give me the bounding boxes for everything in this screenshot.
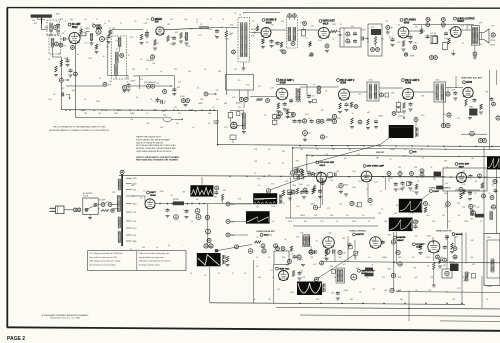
row2 circle pair	[313, 85, 321, 94]
cap 174	[172, 87, 180, 96]
border frame top	[7, 7, 500, 10]
V11 circles	[441, 113, 500, 128]
svg-text:.01: .01	[108, 35, 110, 37]
sound trimmer circle	[120, 54, 124, 58]
svg-text:68: 68	[458, 215, 460, 217]
svg-text:.01: .01	[313, 185, 315, 187]
svg-text:SND DET: SND DET	[376, 152, 385, 154]
svg-text:.01: .01	[126, 82, 129, 84]
svg-text:270: 270	[327, 208, 330, 210]
svg-text:LOCK: LOCK	[83, 196, 89, 198]
waveform scope W8	[389, 218, 413, 232]
svg-text:FILTER: FILTER	[173, 199, 179, 201]
svg-text:VALUE OF THE APPLICATION: VALUE OF THE APPLICATION	[136, 141, 164, 144]
svg-text:330: 330	[471, 158, 474, 160]
svg-text:HV RECT: HV RECT	[416, 244, 425, 246]
T-P taps	[126, 178, 137, 243]
svg-text:TP: TP	[313, 85, 315, 87]
svg-text:470: 470	[312, 96, 315, 98]
notes table col2	[139, 252, 171, 267]
svg-text:.05: .05	[204, 275, 206, 277]
svg-text:PART NAME AND SCHEMATIC REF. N: PART NAME AND SCHEMATIC REF. NUMBER	[136, 159, 178, 162]
svg-text:56: 56	[136, 97, 138, 99]
video amp tube V13	[361, 171, 372, 182]
trap tube	[231, 122, 237, 128]
svg-text:FOCUS: FOCUS	[431, 33, 437, 35]
V8 right comps	[307, 94, 316, 104]
tuner circle 2	[71, 46, 75, 50]
notes table box	[88, 251, 187, 271]
notes table col1	[89, 252, 123, 267]
right box comps	[463, 174, 484, 195]
svg-text:ON-OFF: ON-OFF	[99, 200, 105, 202]
svg-text:MODELS. SOME ARE THE ALTERNATE: MODELS. SOME ARE THE ALTERNATE AND	[136, 147, 176, 150]
label horiz osc control	[429, 187, 451, 193]
border frame left	[6, 8, 8, 328]
waveform scope W3 sawtooth	[197, 253, 221, 266]
svg-text:.02: .02	[366, 277, 368, 279]
svg-text:5U4G: 5U4G	[150, 194, 156, 197]
svg-text:1MEG: 1MEG	[390, 149, 395, 151]
svg-text:RECEIVER MAKES IT POSSIBLE TO: RECEIVER MAKES IT POSSIBLE TO BRING YOU …	[49, 129, 110, 132]
sync tube V12	[317, 173, 327, 183]
waveform scope W1 sync pulses	[389, 125, 414, 138]
filter choke	[173, 198, 255, 206]
svg-text:330: 330	[328, 232, 331, 234]
svg-text:.01: .01	[268, 257, 270, 259]
svg-text:120: 120	[238, 80, 241, 82]
svg-text:470: 470	[178, 113, 181, 115]
horiz disc tube V17	[370, 237, 382, 249]
svg-text:.005: .005	[77, 23, 80, 25]
svg-text:56: 56	[221, 27, 223, 29]
svg-text:270: 270	[140, 79, 143, 81]
svg-text:.01: .01	[104, 23, 106, 25]
yoke box inner	[487, 240, 500, 278]
bus 147 corner down	[292, 148, 294, 171]
comps under tuner	[54, 66, 73, 77]
V7 comps	[433, 32, 456, 56]
W3 top wire	[218, 244, 252, 250]
svg-text:47: 47	[232, 273, 234, 275]
svg-text:270: 270	[359, 291, 362, 293]
V4V5 bottom comps	[276, 41, 330, 54]
svg-text:SOUND IF: SOUND IF	[266, 20, 278, 22]
svg-text:68: 68	[334, 277, 336, 279]
bplus col	[205, 204, 211, 247]
svg-text:220: 220	[144, 35, 147, 37]
AC interlock box	[83, 198, 98, 215]
W9 pointer	[314, 252, 360, 282]
label sound IF	[262, 19, 277, 25]
svg-text:.05: .05	[268, 163, 270, 165]
label 6T8 mid	[410, 151, 417, 154]
svg-text:470: 470	[332, 149, 335, 151]
vert line 348	[347, 236, 349, 262]
svg-text:56: 56	[422, 157, 424, 159]
cap C6	[215, 29, 219, 39]
order parts text	[136, 156, 180, 162]
label pix IF 1	[276, 79, 294, 85]
onoff switch	[98, 200, 112, 207]
svg-text:56: 56	[368, 221, 370, 223]
svg-text:47: 47	[128, 55, 130, 57]
svg-text:.05: .05	[472, 111, 474, 113]
cap C2	[107, 35, 111, 44]
svg-text:.05: .05	[417, 181, 419, 183]
svg-text:.005: .005	[367, 112, 370, 114]
trans bottom	[473, 45, 477, 59]
video det circles b	[350, 198, 372, 207]
under comps D	[309, 114, 337, 139]
svg-text:470: 470	[296, 257, 299, 259]
wires to transformer	[98, 205, 118, 209]
svg-text:470: 470	[346, 215, 349, 217]
svg-text:.05: .05	[325, 91, 327, 93]
svg-text:56: 56	[285, 239, 287, 241]
more texture labels	[34, 21, 493, 279]
waveform scope W6	[487, 156, 500, 169]
hout lower rects	[442, 236, 452, 278]
svg-text:1MEG: 1MEG	[343, 290, 348, 292]
width coil dark	[449, 261, 459, 271]
svg-text:330: 330	[170, 44, 173, 46]
resistor R2a	[95, 44, 99, 54]
vert circles	[309, 249, 334, 265]
vert line 433	[432, 237, 434, 243]
under comps B	[288, 113, 302, 124]
osc trans circle	[309, 250, 316, 254]
terminal 206-94	[204, 92, 217, 96]
svg-text:adjusted before each gain coun: adjusted before each gain count.	[139, 256, 166, 259]
svg-text:USED WHEN NEEDED A USE MODELS.: USED WHEN NEEDED A USE MODELS.	[136, 150, 172, 153]
label video det	[461, 77, 483, 84]
cooperation text	[49, 125, 110, 132]
svg-text:470: 470	[402, 186, 405, 188]
svg-text:4.7MEG: 4.7MEG	[297, 260, 304, 262]
svg-text:.001: .001	[470, 257, 473, 259]
svg-text:T3: T3	[239, 15, 241, 17]
svg-text:.01: .01	[318, 277, 320, 279]
svg-text:330: 330	[304, 221, 307, 223]
svg-text:.01: .01	[222, 19, 224, 21]
peaking coil L5	[200, 24, 209, 29]
circle 105-84	[103, 82, 112, 86]
bottom labels row1	[308, 53, 313, 58]
svg-text:+: +	[182, 245, 183, 247]
svg-text:TRAP: TRAP	[214, 122, 220, 125]
wire antenna-tuner	[42, 25, 48, 30]
svg-text:.02: .02	[252, 20, 254, 22]
phase det vertical	[290, 178, 292, 219]
svg-text:330: 330	[174, 69, 177, 71]
V6 comps	[389, 35, 413, 51]
bus y218	[285, 217, 375, 219]
svg-text:1MEG: 1MEG	[85, 28, 90, 30]
svg-text:270: 270	[170, 19, 173, 21]
svg-text:PIC IF AMP 1: PIC IF AMP 1	[280, 79, 295, 82]
svg-text:4BQ7: 4BQ7	[72, 26, 79, 29]
svg-text:6T8: 6T8	[413, 152, 416, 154]
svg-text:HORIZ OUTPUT: HORIZ OUTPUT	[436, 230, 452, 232]
svg-text:VERT OSC: VERT OSC	[279, 268, 290, 270]
svg-text:1MEG: 1MEG	[344, 184, 349, 186]
wire T5-V11	[446, 88, 463, 101]
svg-text:.01: .01	[84, 19, 86, 21]
svg-text:6AL5: 6AL5	[320, 164, 326, 167]
dark blob left	[436, 186, 443, 190]
svg-text:AUDIO OUTPUT: AUDIO OUTPUT	[457, 17, 475, 20]
svg-text:6CB6: 6CB6	[340, 83, 347, 85]
V11 comps	[465, 98, 483, 120]
svg-text:VOL: VOL	[371, 27, 374, 29]
horiz osc trans box	[300, 233, 310, 247]
cap cluster 157	[153, 97, 167, 104]
bottom bus 315	[300, 292, 500, 317]
V18 cathode chain	[432, 253, 440, 287]
svg-text:.001: .001	[357, 154, 360, 156]
label pix IF 3	[402, 79, 420, 85]
svg-text:1MEG: 1MEG	[198, 103, 203, 105]
wire video row	[372, 176, 445, 178]
svg-text:.01: .01	[306, 289, 308, 291]
trap gnd	[242, 129, 246, 134]
svg-text:330: 330	[443, 265, 446, 267]
wire T4-V10	[379, 87, 402, 89]
svg-text:135: 135	[268, 299, 271, 301]
svg-text:.05: .05	[428, 191, 430, 193]
svg-text:SND TAKEOFF: SND TAKEOFF	[144, 81, 156, 84]
svg-text:120: 120	[446, 292, 449, 294]
wire V7-trans	[461, 25, 471, 30]
svg-text:MIXER: MIXER	[155, 19, 163, 21]
line cord wire	[64, 209, 73, 211]
svg-text:270: 270	[358, 181, 361, 183]
svg-text:.005: .005	[414, 236, 417, 238]
svg-text:.01: .01	[156, 247, 158, 249]
svg-text:.02: .02	[204, 69, 206, 71]
svg-text:.01: .01	[488, 193, 490, 195]
res 222	[221, 194, 223, 204]
svg-text:6W4GT: 6W4GT	[397, 239, 404, 242]
svg-text:.02: .02	[315, 240, 317, 242]
cap 128-86	[126, 82, 130, 93]
svg-text:470: 470	[398, 290, 401, 292]
sync circle left	[290, 171, 294, 175]
under circle C	[302, 119, 311, 142]
svg-text:.001: .001	[146, 123, 149, 125]
output transformer	[471, 26, 479, 45]
svg-text:SYNC SEP: SYNC SEP	[459, 164, 470, 166]
W1 bracket	[398, 116, 418, 138]
cord connector	[74, 208, 81, 212]
resistor R2b	[109, 28, 111, 36]
svg-text:56: 56	[208, 123, 210, 125]
svg-text:6AL5: 6AL5	[323, 22, 329, 25]
sound IF trans coils	[288, 27, 296, 41]
wire trans-V5	[298, 29, 319, 31]
tuner coil L1B	[51, 39, 54, 52]
terminal after vol	[386, 26, 393, 30]
hdrive comps mid	[352, 182, 410, 204]
vert control dark boxes	[365, 268, 374, 277]
wire mixer out	[164, 28, 199, 30]
svg-text:.001: .001	[184, 19, 187, 21]
W9 bracket	[323, 284, 326, 293]
small u box	[332, 270, 335, 274]
svg-text:.02: .02	[146, 113, 148, 115]
svg-text:47: 47	[380, 191, 382, 193]
svg-text:B+: B+	[254, 299, 256, 301]
svg-text:22: 22	[309, 118, 311, 120]
mixer comps	[167, 33, 183, 46]
osc circle	[146, 55, 155, 62]
vert caps bottom	[336, 291, 340, 300]
ratio net circles	[344, 28, 357, 47]
speaker circle	[491, 33, 496, 42]
svg-text:PIC IF-3D DET: PIC IF-3D DET	[320, 162, 335, 164]
circles 413-47	[404, 46, 416, 58]
svg-text:.005: .005	[296, 206, 299, 208]
V11 bottom wire	[461, 131, 487, 142]
yoke box outer	[484, 234, 500, 286]
hv cage wires	[453, 236, 457, 250]
V11 right comps	[490, 70, 496, 150]
tuner coil L1A	[50, 23, 52, 37]
svg-text:.05: .05	[197, 88, 199, 90]
resistor R5	[153, 40, 157, 51]
tuner trimmer C1	[56, 23, 60, 33]
svg-text:2ND VIDEO AMP: 2ND VIDEO AMP	[367, 165, 385, 168]
svg-text:270: 270	[445, 239, 448, 241]
waveform scope W5 saw	[246, 211, 270, 223]
sound row link wires	[66, 85, 172, 87]
filter can circles	[191, 209, 201, 223]
svg-text:.02: .02	[448, 221, 450, 223]
svg-text:.005: .005	[324, 257, 327, 259]
tuner shield dashed box B	[49, 36, 61, 55]
label pic if det	[316, 161, 335, 167]
svg-text:120: 120	[358, 94, 361, 96]
svg-text:VIDEO DET AGC KEY: VIDEO DET AGC KEY	[461, 77, 483, 80]
svg-text:AF: AF	[391, 27, 393, 30]
label trap	[214, 120, 220, 126]
ratio circles	[236, 97, 248, 104]
T4 right comps	[380, 93, 389, 97]
pix IF tube V8	[276, 88, 288, 100]
svg-text:270: 270	[474, 193, 477, 195]
V8 out coil	[296, 88, 301, 102]
svg-text:385: 385	[350, 299, 353, 301]
W7 terminal	[422, 194, 429, 213]
svg-text:68: 68	[184, 37, 186, 39]
svg-text:OHM: OHM	[44, 27, 49, 29]
svg-text:HORIZ PHASE DET: HORIZ PHASE DET	[257, 230, 276, 233]
svg-text:1MEG: 1MEG	[378, 116, 383, 118]
mid comps under	[288, 172, 348, 210]
V8 comps	[276, 99, 293, 119]
bus corner vertical	[217, 111, 219, 145]
svg-text:220: 220	[174, 107, 177, 109]
resistor R4	[140, 34, 144, 45]
svg-text:.01: .01	[366, 189, 368, 191]
svg-text:1B3GT: 1B3GT	[416, 247, 423, 249]
label sync sect	[455, 163, 470, 169]
resistor 421	[420, 25, 429, 39]
sound IF transformer dashed box	[112, 36, 127, 79]
cap C5	[145, 30, 149, 39]
circle 164-91	[163, 90, 167, 94]
svg-text:L5: L5	[200, 24, 202, 26]
svg-text:56: 56	[103, 56, 105, 58]
V8 plate bus	[276, 84, 307, 95]
svg-text:40: 40	[168, 245, 170, 247]
antenna	[31, 15, 52, 25]
svg-text:SPKR: SPKR	[491, 40, 496, 42]
svg-text:T3: T3	[234, 13, 236, 15]
svg-text:.01: .01	[150, 99, 152, 101]
svg-text:.005: .005	[479, 44, 482, 46]
power transformer T-P	[112, 170, 124, 246]
resistor R6	[225, 31, 232, 37]
circle 124-87	[122, 86, 130, 93]
svg-text:120: 120	[354, 257, 357, 259]
pix IF tube V10	[402, 88, 413, 99]
svg-text:.05: .05	[381, 208, 383, 210]
svg-text:470: 470	[382, 277, 385, 279]
right col wires	[448, 169, 498, 233]
bus y147.9	[293, 148, 500, 150]
horiz out tube V18	[428, 241, 440, 253]
svg-text:.02: .02	[264, 115, 266, 117]
audio out tube V7	[450, 27, 461, 38]
svg-text:56: 56	[468, 94, 470, 96]
svg-text:.01: .01	[340, 24, 342, 26]
svg-text:WAVEFORMS TAKEN WITH: WAVEFORMS TAKEN WITH	[136, 136, 161, 139]
svg-text:.005: .005	[177, 87, 180, 89]
svg-text:470: 470	[85, 42, 88, 44]
svg-text:with all controls at normal se: with all controls at normal setting.	[89, 264, 116, 267]
svg-text:330: 330	[276, 111, 279, 113]
wire V1 plate	[79, 32, 90, 36]
sound coil B	[116, 52, 119, 63]
row2 right verticals	[444, 70, 497, 128]
svg-text:270: 270	[95, 25, 98, 27]
svg-text:.05: .05	[212, 107, 214, 109]
ratio det wires	[226, 75, 248, 109]
under comps A	[273, 113, 281, 125]
svg-text:470: 470	[268, 175, 271, 177]
lin res box	[471, 274, 475, 278]
svg-text:.01: .01	[268, 149, 270, 151]
svg-text:FROM: FROM	[251, 29, 256, 31]
W2 terminal	[214, 186, 219, 195]
circles 431-57	[430, 56, 438, 60]
svg-text:.005: .005	[330, 180, 333, 182]
svg-text:.01: .01	[283, 203, 285, 205]
svg-text:300: 300	[34, 23, 37, 25]
label audio output	[454, 17, 476, 23]
tuner box circles	[54, 26, 59, 47]
svg-text:220: 220	[286, 277, 289, 279]
label horiz output	[436, 230, 463, 235]
svg-text:.05: .05	[415, 290, 417, 292]
ratio small box	[237, 112, 245, 116]
waveform scope W2 vert sweep	[190, 185, 213, 196]
svg-text:6AV6: 6AV6	[404, 21, 410, 24]
svg-text:DAMPER: DAMPER	[397, 236, 406, 239]
label RF AMP	[68, 23, 81, 29]
